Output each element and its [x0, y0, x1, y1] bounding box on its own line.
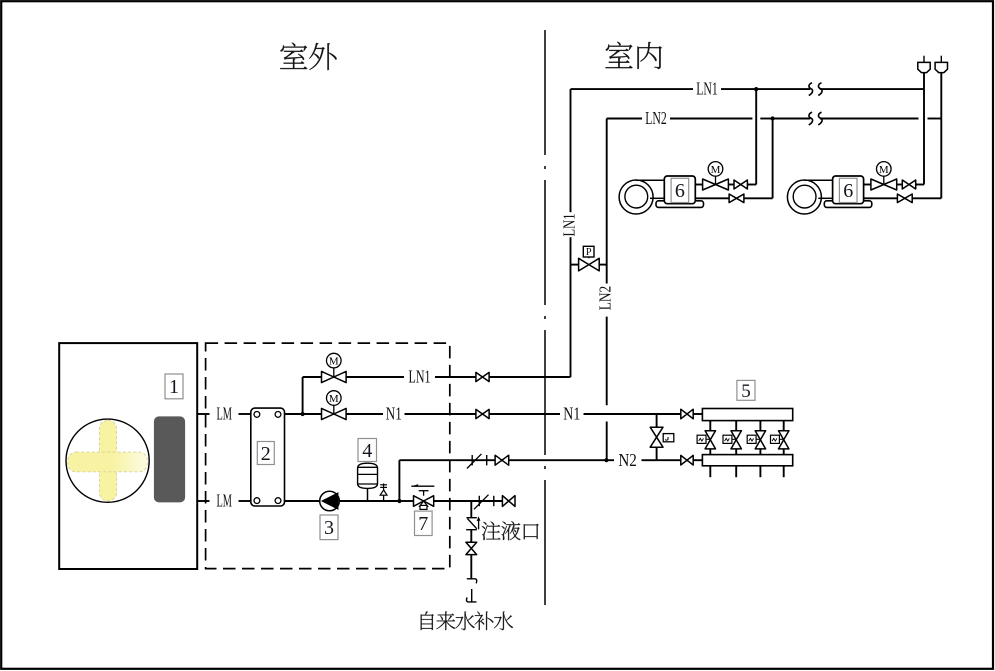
manifold branch 1 valve — [697, 431, 715, 449]
break symbol LN1 left — [809, 83, 813, 96]
shutoff valve N1 — [476, 409, 489, 418]
pipe N2 node to label — [606, 459, 614, 461]
manifold branch 2 lower pipe — [735, 449, 737, 455]
riser 6a return — [772, 119, 774, 199]
union on N2 — [467, 454, 487, 469]
LN1 riser upper — [570, 89, 572, 212]
dashed module boundary — [206, 343, 450, 568]
manifold branch 3 upper pipe — [759, 421, 761, 431]
expansion tank 4 — [358, 463, 378, 501]
pipe LN2 break to crossing 2 — [820, 118, 919, 120]
hose coupling lower hook — [466, 589, 476, 602]
pipe 6b cabinet return — [864, 197, 898, 199]
svg-text:5: 5 — [741, 381, 751, 402]
label 自来水补水 (tap water make-up) — [421, 611, 513, 630]
pipe 6a shutoff to riser — [747, 184, 756, 186]
drain shutoff valve — [502, 496, 515, 507]
pipe LN2 crossing hop 2 — [928, 118, 942, 120]
outdoor unit fan circle outline — [66, 419, 149, 502]
three-way valve 7 — [411, 484, 434, 509]
outdoor unit 1 enclosure — [59, 343, 197, 569]
label N1 indoor — [563, 404, 580, 424]
fan coil unit 6a cabinet — [664, 176, 695, 204]
fan coil unit 6a blower — [619, 180, 653, 214]
pipe LN1 from riser — [571, 88, 694, 90]
FCU2 return riser extension — [940, 73, 942, 119]
node E junction — [771, 116, 775, 120]
motorized valve 6a — [703, 162, 729, 190]
riser 6a supply — [755, 89, 757, 184]
pipe node B to three-way valve — [399, 500, 413, 502]
pipe 6a M valve to shutoff — [728, 184, 734, 186]
pipe LN2 label to crossing — [670, 118, 752, 120]
svg-text:N2: N2 — [618, 450, 637, 470]
pipe LN1 to riser corner — [489, 376, 570, 378]
shutoff valve 6b supply — [902, 180, 915, 189]
manifold branch 4 lower pipe — [783, 449, 785, 455]
manifold branch 4 outlet stub — [783, 466, 785, 477]
fan coil unit 6b blower — [787, 180, 821, 214]
compressor block (dark) — [154, 416, 185, 502]
svg-text:M: M — [711, 164, 721, 176]
label 6 (6b) — [839, 178, 857, 202]
bypass pipe upper — [656, 414, 658, 427]
manifold supply valve N1 — [681, 409, 693, 419]
manifold branch 1 outlet stub — [709, 466, 711, 477]
heat exchanger 2 — [251, 408, 285, 506]
svg-text:1: 1 — [169, 376, 179, 398]
motorized valve on LN1 branch — [322, 353, 347, 382]
pipe 6b M valve to shutoff — [897, 184, 903, 186]
manifold branch 2 outlet stub — [735, 466, 737, 477]
outdoor unit fan circle fill — [66, 419, 149, 502]
svg-text:6: 6 — [675, 180, 685, 202]
pipe pump to tank stem — [339, 500, 399, 502]
pipe HX to pump — [285, 500, 320, 502]
label 3 — [320, 515, 338, 540]
fill shutoff valve — [466, 542, 477, 554]
riser node B to N2 — [398, 460, 400, 501]
manifold branch 4 valve — [771, 431, 789, 449]
manifold supply header — [702, 409, 792, 421]
fan coil unit 6b bottom pipe from blower — [818, 197, 832, 199]
label LN2 top — [645, 108, 667, 128]
svg-text:LM: LM — [216, 491, 232, 511]
svg-text:P: P — [586, 247, 592, 258]
svg-text:M: M — [879, 164, 889, 176]
svg-text:M: M — [329, 393, 339, 405]
pipe N1 valve to supply header — [693, 413, 702, 415]
svg-text:LN1: LN1 — [559, 214, 578, 237]
pipe LM bottom to HX — [239, 500, 251, 502]
title 室内 (indoor) — [605, 42, 661, 69]
manifold branch 3 lower pipe — [759, 449, 761, 455]
fill branch pipe — [470, 530, 472, 543]
fan coil unit 6a base — [656, 201, 704, 208]
fan coil unit 6a bottom pipe from blower — [650, 197, 664, 199]
manifold branch 2 upper pipe — [735, 421, 737, 431]
manifold branch 1 upper pipe — [709, 421, 711, 431]
pipe N1 node A to valve — [303, 413, 322, 415]
pipe 6b cabinet to M valve — [864, 184, 871, 186]
break symbol LN2 left — [809, 112, 813, 125]
manifold branch 2 valve — [723, 431, 741, 449]
pipe N1 valve to label 2 — [489, 413, 560, 415]
motorized valve on N1 — [322, 391, 347, 420]
label 1 — [165, 374, 183, 399]
shutoff valve N2 outdoor — [495, 455, 509, 465]
break symbol LN1 right — [818, 83, 822, 96]
fan coil unit 6b blower top line — [804, 179, 832, 181]
label LN1 outdoor — [409, 367, 431, 387]
svg-text:LN1: LN1 — [409, 367, 431, 387]
bypass balancing valve — [650, 427, 674, 447]
tee junction fill branch — [470, 501, 472, 517]
pipe LN1 label to node D — [721, 88, 756, 90]
FCU2 supply riser extension — [923, 73, 925, 90]
label 注液口 (fill port) — [482, 521, 539, 540]
svg-text:N1: N1 — [563, 404, 580, 424]
hose coupling upper hook — [467, 579, 477, 584]
fan propeller cross — [68, 420, 148, 501]
pipe LM top from unit — [197, 413, 209, 415]
label 2 — [257, 442, 274, 465]
pipe N2 to node C — [509, 459, 607, 461]
pipe LM top to HX — [239, 413, 251, 415]
riser 6b supply — [923, 89, 925, 184]
shutoff valve 6b return — [897, 194, 912, 203]
air vent on supply riser — [918, 56, 930, 73]
svg-text:LM: LM — [216, 404, 232, 424]
pipe N1 valve to label — [346, 413, 383, 415]
node B junction — [397, 499, 401, 503]
partition line (dash-dot boundary) — [544, 30, 546, 610]
pipe valve 7 row union — [474, 495, 494, 510]
svg-text:LN1: LN1 — [696, 79, 718, 99]
svg-text:M: M — [329, 356, 339, 368]
manifold return valve N2 — [681, 455, 693, 465]
pipe 6a return to riser — [744, 197, 773, 199]
pipe LN1 break to FCU2 riser — [820, 88, 924, 90]
label LN1 riser (rotated) — [559, 214, 578, 237]
pipe LN1 valve to label — [346, 376, 404, 378]
svg-text:LN2: LN2 — [596, 286, 615, 311]
pipe 6b return to riser — [912, 197, 941, 199]
svg-text:3: 3 — [324, 517, 334, 539]
label N1 outdoor — [386, 404, 402, 424]
pipe N1 label to valve — [405, 413, 477, 415]
LN2 riser lower (gap at N1 crossing) — [606, 422, 608, 461]
LN2 riser upper — [606, 119, 608, 284]
shutoff valve 6a supply — [734, 180, 747, 189]
label LM bottom — [216, 491, 232, 511]
manifold branch 3 outlet stub — [759, 466, 761, 477]
manifold branch 3 valve — [747, 431, 765, 449]
pipe N2 label to bypass — [642, 459, 657, 461]
node C junction — [604, 458, 608, 462]
label LM top — [216, 404, 232, 424]
motorized valve 6b — [871, 162, 897, 190]
pipe LN1 label to indoor valve — [435, 376, 476, 378]
manifold branch 1 lower pipe — [709, 449, 711, 455]
label LN1 top — [696, 79, 718, 99]
pipe valve 7 to tee — [434, 500, 503, 502]
automatic air vent on pipe — [380, 483, 387, 501]
fan coil unit 6a blower top line — [636, 179, 664, 181]
riser 6b return — [940, 119, 942, 199]
node D junction — [754, 87, 758, 91]
svg-text:LN2: LN2 — [645, 108, 667, 128]
node A junction — [301, 412, 305, 416]
riser node A to LN1 branch — [302, 377, 304, 414]
svg-text:N1: N1 — [386, 404, 402, 424]
title 室外 (outdoor) — [280, 43, 336, 71]
pipe LN1 branch to valve — [303, 376, 322, 378]
label 5 — [737, 380, 755, 401]
pipe 6b shutoff to riser — [916, 184, 924, 186]
pipe HX to node A — [285, 413, 303, 415]
label 6 (6a) — [671, 178, 689, 202]
pressure bypass valve P — [571, 246, 607, 271]
manifold branch 4 upper pipe — [783, 421, 785, 431]
shutoff valve 6a return — [729, 194, 744, 203]
air vent on return riser — [935, 56, 947, 73]
pipe LN2 node E to break — [773, 118, 811, 120]
label 7 — [415, 511, 433, 535]
pipe 6a cabinet return — [695, 197, 729, 199]
label 4 — [358, 439, 377, 462]
shutoff valve LN1 — [476, 372, 489, 381]
pipe LM bottom from unit — [197, 500, 209, 502]
LN1 riser lower — [570, 237, 572, 377]
pipe 6a cabinet to M valve — [695, 184, 702, 186]
svg-text:2: 2 — [261, 443, 271, 465]
svg-text:4: 4 — [362, 440, 372, 462]
svg-text:7: 7 — [418, 513, 428, 535]
fan coil unit 6b cabinet — [833, 176, 864, 204]
LN2 riser mid — [606, 317, 608, 406]
break symbol LN2 right — [818, 112, 822, 125]
fill branch pipe 2 — [470, 555, 472, 579]
svg-text:6: 6 — [843, 180, 853, 202]
pipe N2 valve to return header — [693, 459, 702, 461]
pipe LN2 corner — [607, 118, 642, 120]
manifold return header — [702, 455, 792, 466]
pipe N1 to manifold valve — [584, 413, 682, 415]
pipe LN1 node D to break — [756, 88, 810, 90]
label N2 — [618, 450, 637, 470]
pipe N2 bypass to valve — [657, 459, 681, 461]
pipe LN2 crossing hop — [760, 118, 772, 120]
label LN2 riser (rotated) — [596, 286, 615, 311]
bypass pipe lower — [656, 447, 658, 460]
fill branch break symbol — [466, 516, 480, 529]
pump 3 — [320, 491, 340, 511]
pipe N2 from riser — [399, 459, 495, 461]
fan coil unit 6b base — [824, 201, 872, 208]
